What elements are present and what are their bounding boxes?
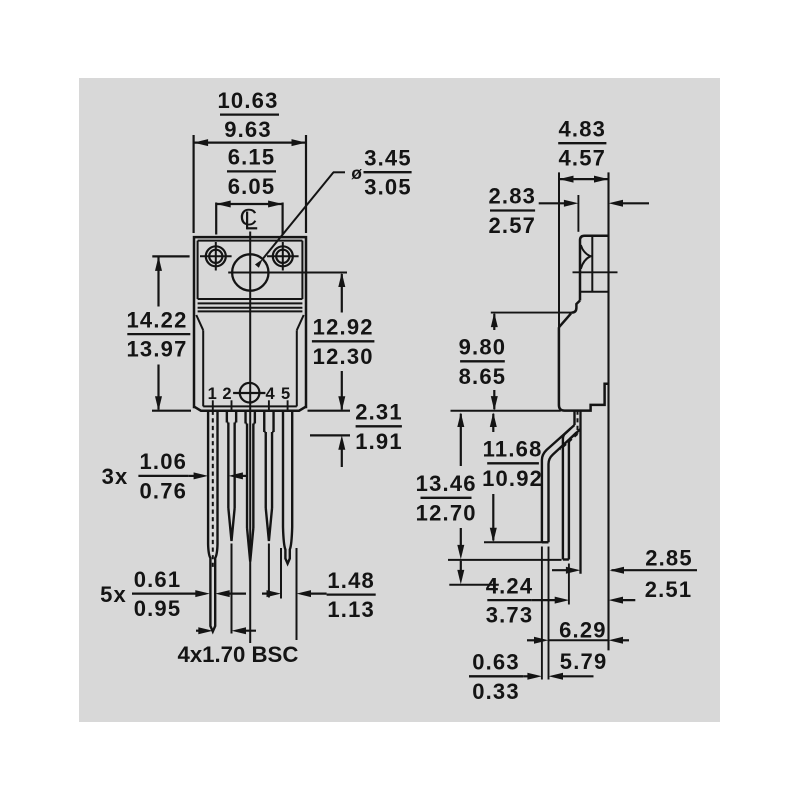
svg-text:4.24: 4.24 (486, 573, 534, 598)
svg-text:11.68: 11.68 (483, 437, 543, 462)
svg-text:5: 5 (281, 385, 290, 403)
svg-text:14.22: 14.22 (126, 307, 187, 332)
svg-text:12.30: 12.30 (313, 344, 374, 369)
svg-text:4x1.70 BSC: 4x1.70 BSC (178, 642, 299, 667)
svg-text:3.45: 3.45 (364, 145, 412, 170)
svg-text:2.85: 2.85 (645, 545, 693, 570)
svg-text:4.57: 4.57 (558, 146, 606, 171)
svg-text:12.92: 12.92 (313, 315, 374, 340)
svg-text:2.31: 2.31 (355, 400, 403, 425)
svg-text:1.91: 1.91 (355, 429, 403, 454)
svg-text:0.95: 0.95 (134, 596, 182, 621)
svg-text:3x: 3x (102, 464, 129, 489)
svg-text:3.73: 3.73 (486, 603, 534, 628)
svg-text:1.06: 1.06 (139, 449, 187, 474)
svg-text:2: 2 (222, 385, 231, 403)
svg-text:2.57: 2.57 (488, 213, 536, 238)
svg-text:6.29: 6.29 (559, 617, 607, 642)
svg-text:4: 4 (266, 385, 276, 403)
svg-text:4.83: 4.83 (558, 116, 606, 141)
svg-text:1.13: 1.13 (327, 597, 375, 622)
svg-text:1.48: 1.48 (327, 568, 375, 593)
svg-text:ø: ø (351, 163, 363, 183)
svg-text:6.05: 6.05 (228, 174, 276, 199)
svg-text:2.83: 2.83 (488, 184, 536, 209)
svg-text:0.33: 0.33 (472, 679, 520, 704)
svg-text:5.79: 5.79 (560, 649, 608, 674)
svg-text:3.05: 3.05 (364, 175, 412, 200)
svg-text:6.15: 6.15 (228, 145, 276, 170)
svg-text:0.76: 0.76 (139, 478, 187, 503)
svg-text:10.63: 10.63 (217, 88, 278, 113)
svg-text:9.63: 9.63 (224, 117, 272, 142)
svg-text:13.46: 13.46 (416, 471, 477, 496)
svg-text:9.80: 9.80 (459, 335, 507, 360)
svg-text:0.63: 0.63 (472, 650, 520, 675)
svg-text:0.61: 0.61 (134, 567, 182, 592)
svg-text:1: 1 (208, 385, 217, 403)
svg-text:5x: 5x (100, 582, 127, 607)
svg-text:2.51: 2.51 (645, 577, 693, 602)
svg-text:10.92: 10.92 (482, 466, 543, 491)
svg-text:8.65: 8.65 (459, 364, 507, 389)
svg-text:13.97: 13.97 (126, 337, 187, 362)
svg-text:12.70: 12.70 (416, 500, 477, 525)
